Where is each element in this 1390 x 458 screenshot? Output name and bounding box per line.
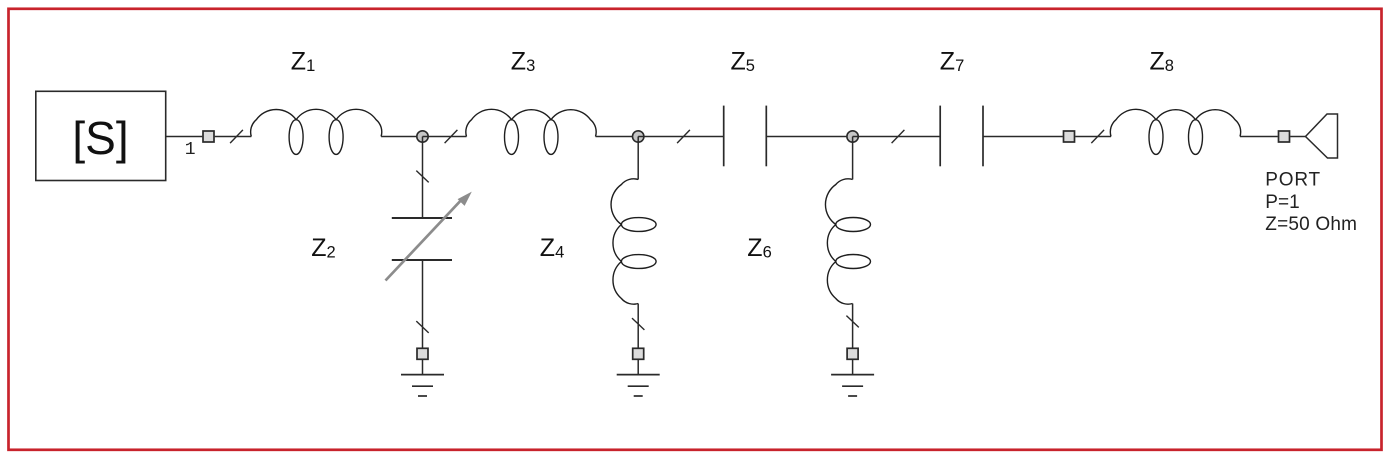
inductor Z1 — [251, 109, 382, 154]
wire pad to ground (Z4) — [637, 359, 639, 374]
tick on wire before Z7 — [892, 130, 905, 143]
wire node C to Z7 — [853, 136, 941, 138]
wire pad to ground (Z2) — [422, 359, 424, 374]
wire Z6 to pad — [852, 304, 854, 349]
tick on Z4 bottom wire — [632, 318, 644, 330]
wire Z8 to pad — [1240, 136, 1278, 138]
svg-text:1: 1 — [185, 140, 196, 160]
wire Z7 to pad — [983, 136, 1063, 138]
inductor Z3 — [466, 109, 596, 154]
capacitor Z5 — [724, 106, 767, 167]
capacitor Z7 — [940, 106, 983, 167]
wire Z2 to pad — [422, 260, 424, 348]
port text PORT P=1 Z=50 Ohm — [1265, 170, 1357, 235]
node C junction — [847, 131, 858, 142]
wire pad to port — [1290, 136, 1305, 138]
inductor Z6 — [825, 179, 870, 304]
wire pad to Z8 — [1075, 136, 1111, 138]
svg-text:PORT: PORT — [1265, 170, 1321, 191]
variable capacitor Z2 — [386, 192, 472, 281]
pad above ground (Z4) — [633, 348, 644, 359]
wire pad to ground (Z6) — [852, 359, 854, 374]
inductor Z4 — [611, 179, 656, 304]
pin pad after [S] — [203, 131, 214, 142]
pad above ground (Z2) — [417, 348, 428, 359]
wire node A down to Z2 — [422, 137, 424, 219]
wire Z1 to node A — [381, 136, 422, 138]
tick on Z2 bottom wire — [416, 321, 428, 333]
inductor Z8 — [1110, 109, 1240, 154]
wire [S] to pad — [166, 136, 203, 138]
ground symbol (Z4) — [617, 375, 660, 396]
ground symbol (Z6) — [831, 375, 874, 396]
S-parameter block [S] — [36, 91, 166, 180]
wire pad to Z1 — [215, 136, 252, 138]
tick on Z2 top wire — [416, 171, 428, 183]
svg-text:Z=50 Ohm: Z=50 Ohm — [1265, 214, 1357, 235]
node A junction — [417, 131, 428, 142]
pad above ground (Z6) — [847, 348, 858, 359]
svg-text:P=1: P=1 — [1265, 192, 1299, 213]
tick on wire before Z1 — [230, 130, 243, 143]
node B junction — [633, 131, 644, 142]
pin pad before port — [1279, 131, 1290, 142]
ground symbol (Z2) — [401, 375, 444, 396]
wire node A to Z3 — [423, 136, 467, 138]
wire Z3 to node B — [596, 136, 639, 138]
wire node B to Z5 — [638, 136, 724, 138]
pin pad before Z8 — [1064, 131, 1075, 142]
tick on Z6 bottom wire — [846, 316, 858, 328]
tick on wire before Z8 — [1091, 130, 1104, 143]
tick on wire before Z5 — [677, 130, 690, 143]
port PORT P=1 — [1306, 114, 1338, 158]
tick on wire before Z3 — [445, 130, 458, 143]
wire node B down to Z4 — [637, 137, 639, 180]
wire Z4 to pad — [637, 304, 639, 349]
svg-text:[S]: [S] — [72, 112, 128, 164]
wire Z5 to node C — [766, 136, 852, 138]
wire node C down to Z6 — [852, 137, 854, 180]
